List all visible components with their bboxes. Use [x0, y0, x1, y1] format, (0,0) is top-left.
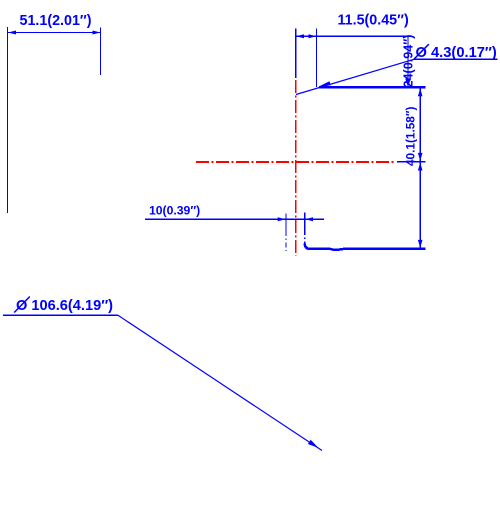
svg-text:51.1(2.01″): 51.1(2.01″) — [20, 13, 92, 29]
svg-text:O 106.6(4.19″): O 106.6(4.19″) — [16, 298, 113, 314]
svg-text:40.1(1.58″): 40.1(1.58″) — [404, 107, 418, 166]
svg-text:O 4.3(0.17″): O 4.3(0.17″) — [416, 45, 497, 61]
svg-text:11.5(0.45″): 11.5(0.45″) — [338, 13, 409, 29]
svg-text:24(0.94″): 24(0.94″) — [402, 35, 416, 88]
svg-text:10(0.39″): 10(0.39″) — [149, 204, 200, 218]
